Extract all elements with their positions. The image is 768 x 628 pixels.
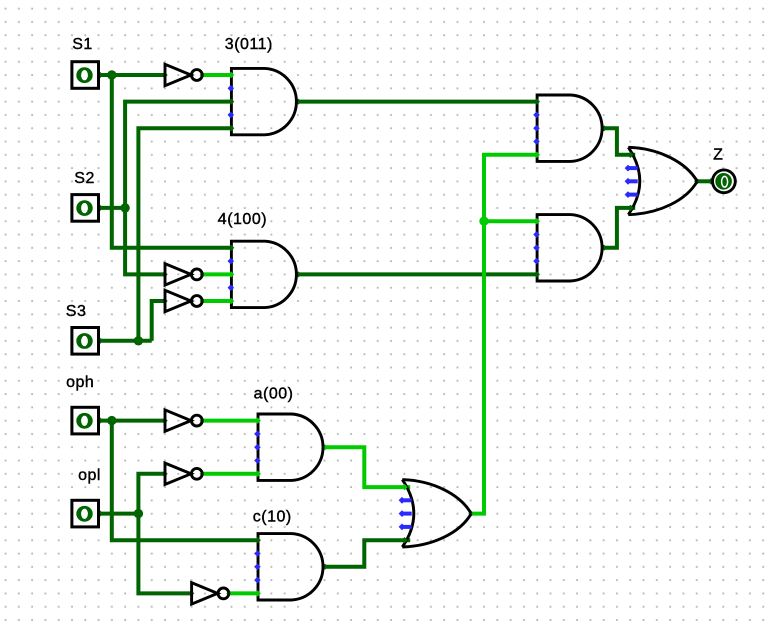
- wire end at inverter U2 input: [161, 271, 167, 277]
- wire end at pin S3: [97, 338, 103, 344]
- wire S2 down to inverter U2: [125, 208, 165, 275]
- svg-text:3(011): 3(011): [225, 36, 273, 53]
- input pin S2: [72, 195, 99, 222]
- wire inverter U6 output to AND G4 input 5: [228, 591, 258, 595]
- wire start at OR G3 output: [468, 511, 474, 517]
- junction at opl: [134, 509, 143, 518]
- svg-text:Z: Z: [713, 146, 723, 163]
- wire inverter U1 output to AND G1 input 1: [202, 73, 232, 77]
- wire AND G6 output to OR G7 input 5: [604, 208, 636, 248]
- wire start at AND G2 output: [295, 271, 301, 277]
- input pin S3: [72, 328, 99, 355]
- inverter U3: [165, 290, 191, 311]
- wire end at inverter U6 input: [188, 590, 194, 596]
- inverter U6: [192, 583, 218, 604]
- OR gate G7 output: [628, 147, 697, 181]
- wire end at inverter U1 input: [161, 72, 167, 78]
- wire AND G2 output to AND G6 input 5: [298, 272, 537, 276]
- wire start at inverter U6 output: [226, 590, 232, 596]
- AND gate G5 top right: [537, 95, 602, 161]
- wire start at AND G1 output: [295, 99, 301, 105]
- wire end at pin opl: [97, 510, 103, 516]
- input pin oph: [72, 407, 99, 434]
- wire start at inverter U3 output: [200, 298, 206, 304]
- svg-text:S2: S2: [74, 170, 95, 187]
- input pin S1: [72, 62, 99, 89]
- wire AND G4 output to OR G3 input 5: [325, 540, 411, 567]
- AND gate G2 4(100): [231, 241, 296, 307]
- wire start at inverter U1 output: [200, 72, 206, 78]
- junction at S3: [134, 336, 143, 345]
- wire start at AND G6 output: [601, 245, 607, 251]
- wire end at pin oph: [97, 417, 103, 423]
- wire end at inverter U5 input: [161, 471, 167, 477]
- inverter U5: [165, 463, 191, 484]
- wire AND G1 output to AND G5 input 1: [298, 100, 537, 104]
- wire S2 to junction: [99, 206, 126, 210]
- AND gate G4 c(10): [258, 534, 323, 600]
- svg-text:S3: S3: [66, 303, 87, 320]
- wire end at pin Z: [708, 178, 714, 184]
- output pin Z: [713, 170, 736, 193]
- svg-text:S1: S1: [72, 36, 93, 53]
- wire S1 to inverter U1: [99, 73, 166, 77]
- wire AND G3 output to OR G3 input 1: [325, 447, 411, 487]
- wire inverter U3 output to AND G2 input 5: [202, 299, 232, 303]
- wire oph down to AND G4 input 1: [112, 421, 258, 541]
- wire S1 down to AND G2 input 1: [112, 75, 232, 248]
- wire branch to AND G6 input 1: [484, 219, 537, 223]
- wire end at pin S2: [97, 205, 103, 211]
- wire start at inverter U5 output: [200, 471, 206, 477]
- wire start at inverter U4 output: [200, 418, 206, 424]
- inverter U1: [165, 64, 191, 85]
- input pin opl: [72, 500, 99, 527]
- svg-text:a(00): a(00): [254, 386, 294, 403]
- wire end at pin S1: [97, 72, 103, 78]
- wire opl down to inverter U6: [138, 514, 191, 594]
- junction at oph: [107, 416, 116, 425]
- wire OR G7 output to pin Z: [697, 179, 712, 183]
- wire oph to inverter U4: [99, 419, 166, 423]
- wire opl to junction: [99, 512, 139, 516]
- svg-text:4(100): 4(100): [218, 211, 267, 228]
- svg-text:oph: oph: [66, 374, 94, 391]
- wire end at inverter U3 input: [161, 298, 167, 304]
- wire start at inverter U2 output: [200, 271, 206, 277]
- wire inverter U4 output to AND G3 input 1: [202, 419, 258, 423]
- inverter U4: [165, 410, 191, 431]
- wire start at AND G4 output: [322, 564, 328, 570]
- wire S3 up to inverter U3: [152, 301, 165, 341]
- wire inverter U5 output to AND G3 input 5: [202, 472, 258, 476]
- wire OR G3 output up to AND G5 input 5: [471, 155, 537, 514]
- wire S3 up to AND G1 input 5: [138, 128, 231, 341]
- wire end at inverter U4 input: [161, 417, 167, 423]
- AND gate G6 bottom right: [537, 215, 602, 281]
- wire S2 up to AND G1 input 3: [125, 102, 231, 208]
- AND gate G3 a(00): [258, 414, 323, 480]
- inverter U2: [165, 264, 191, 285]
- wire start at AND G5 output: [601, 125, 607, 131]
- svg-text:c(10): c(10): [253, 508, 292, 525]
- junction on OR G3 output: [479, 217, 488, 226]
- junction at S1: [107, 70, 116, 79]
- AND gate G1 3(011): [231, 68, 296, 134]
- OR gate G3 lower: [402, 480, 471, 514]
- svg-text:opl: opl: [78, 467, 101, 484]
- wire S3 to junction: [99, 339, 152, 343]
- wire opl up to inverter U5: [138, 474, 165, 514]
- wire inverter U2 output to AND G2 input 3: [202, 272, 232, 276]
- wire start at AND G3 output: [322, 444, 328, 450]
- wire AND G5 output to OR G7 input 1: [604, 128, 636, 155]
- wire start at OR G7 output: [694, 178, 700, 184]
- junction at S2: [120, 203, 129, 212]
